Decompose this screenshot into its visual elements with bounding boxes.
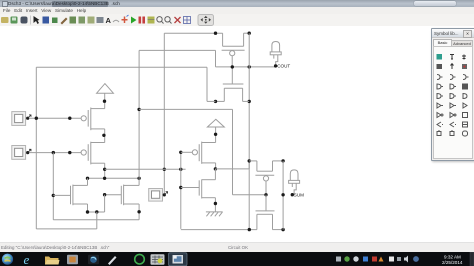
wire net B vertical — [52, 153, 54, 220]
node Z gate branch — [179, 186, 182, 189]
wire P3 drain lead — [104, 163, 106, 178]
transistor N1 nmos — [223, 67, 244, 102]
node A1 — [35, 117, 38, 120]
pin of S3 — [163, 192, 168, 197]
wire net B bottom — [53, 212, 139, 220]
wire P2 P3 link — [104, 129, 106, 143]
node rail SUM bottom — [281, 228, 284, 231]
pin of S2 — [26, 149, 31, 154]
wire N2 gate — [53, 194, 70, 196]
ground — [206, 212, 223, 216]
node A2 — [68, 117, 71, 120]
node N4 source — [214, 202, 217, 205]
node B1 — [52, 151, 55, 154]
symbol library palette window — [431, 28, 474, 161]
node P2 P3 — [102, 134, 105, 137]
node D1 — [86, 177, 89, 180]
wire bottom rail — [181, 229, 283, 231]
transistor P5 pmos — [249, 161, 283, 195]
push button S2 input B — [12, 146, 26, 160]
wire N2 source row — [88, 195, 105, 212]
wire net OUT1 y109 — [139, 108, 232, 110]
node SUM mid — [281, 193, 284, 196]
svg-text:SUM: SUM — [294, 192, 304, 197]
node Z top — [179, 151, 182, 154]
transistor N3 nmos — [121, 178, 139, 212]
wire from net OUT1 upper corner — [139, 50, 215, 67]
node rail COUT — [248, 65, 251, 68]
wire N3 gate — [105, 194, 122, 196]
wire net A long horizontal y67 — [36, 67, 215, 101]
node vdd2 lead — [214, 133, 217, 136]
wire nmos drains y178 — [88, 177, 140, 179]
node B gate branch — [52, 194, 55, 197]
push button S3 input CIN — [149, 189, 163, 202]
node top rail right corner — [248, 32, 251, 35]
push button S1 input A — [12, 112, 26, 126]
svg-text:COUT: COUT — [277, 64, 290, 69]
title bar — [0, 0, 474, 7]
menu bar — [0, 7, 474, 14]
wire net COUT vertical rail — [248, 33, 250, 229]
wire stage2 input y67 — [216, 66, 276, 68]
node gate junction P1N1 — [231, 65, 234, 68]
transistor P4 pmos — [192, 142, 215, 169]
node rail V8 bottom — [248, 228, 251, 231]
svg-text:e: e — [24, 252, 30, 266]
wire net CIN vertical to button S3 — [163, 33, 165, 194]
wire S2 to P3 gate — [30, 152, 82, 154]
wire N4 gate — [181, 187, 199, 189]
toolbar — [0, 14, 474, 27]
node P3 drain — [103, 168, 106, 171]
node on top rail — [214, 32, 217, 35]
label SUM — [294, 192, 304, 197]
taskbar — [0, 252, 474, 266]
wire net OUT1 vertical — [138, 50, 140, 178]
transistor N5 nmos — [256, 195, 275, 230]
wire net SUM vertical — [282, 161, 284, 230]
wire OUT2 to stage3 — [215, 161, 249, 169]
transistor P3 pmos — [81, 142, 105, 165]
node S1b — [95, 210, 98, 213]
node OUT1 branch — [137, 108, 140, 111]
node N3 source — [137, 210, 140, 213]
wire net CIN top rail — [164, 32, 249, 34]
node COUT rail nmos — [248, 100, 251, 103]
node OUT2 — [214, 167, 217, 170]
node SUM rail top — [281, 159, 284, 162]
transistor N2 nmos — [71, 178, 88, 212]
node N1 left — [214, 100, 217, 103]
node D3 — [137, 177, 140, 180]
LED SUM — [289, 170, 300, 194]
wire net A bottom link — [36, 212, 97, 229]
node N3 gate — [103, 193, 106, 196]
wire net A vertical left — [35, 67, 37, 229]
wire net Z vertical — [180, 152, 182, 229]
node CIN crossing — [163, 168, 166, 171]
node stage3 in — [248, 159, 251, 162]
node LED COUT pin — [274, 64, 277, 67]
svg-text:2/25/2014: 2/25/2014 — [442, 260, 463, 265]
wire net OUT1 V9 — [233, 109, 267, 194]
wire N1 source row — [216, 100, 250, 102]
pin of S1 — [26, 115, 31, 120]
label COUT — [277, 64, 290, 69]
transistor P1 pmos — [222, 33, 245, 67]
status bar — [0, 242, 474, 253]
vdd supply arrow 2 — [207, 119, 224, 142]
node Y crossing V5 — [179, 168, 182, 171]
svg-text:9:32 AM: 9:32 AM — [444, 254, 461, 259]
wire P4 gate — [181, 151, 193, 153]
node B2 — [68, 151, 71, 154]
wire node Y horizontal y169 — [105, 168, 186, 170]
vdd supply arrow 1 — [97, 84, 114, 109]
node vdd1 lead — [103, 100, 106, 103]
node LED SUM pin — [291, 193, 294, 196]
LED COUT — [270, 42, 281, 66]
node P5 N5 gates — [264, 193, 267, 196]
node D2 — [103, 177, 106, 180]
transistor P2 pmos — [81, 108, 105, 131]
transistor N4 nmos — [199, 169, 215, 212]
wire S1 to P2 gate — [30, 117, 82, 119]
node S1a — [86, 210, 89, 213]
